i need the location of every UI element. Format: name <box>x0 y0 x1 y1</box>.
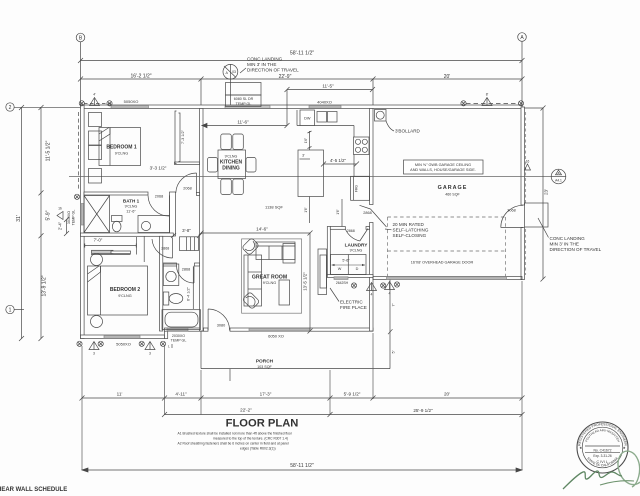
bedroom2 bed <box>88 266 148 315</box>
laundry south wall <box>327 275 373 278</box>
svg-text:L: L <box>168 345 170 349</box>
svg-text:16'X8' OVERHEAD GARAGE DOOR: 16'X8' OVERHEAD GARAGE DOOR <box>411 261 474 265</box>
dimension 1'-6" laundry offset <box>336 199 342 227</box>
bedroom1 bed <box>99 128 141 166</box>
svg-text:7'-0": 7'-0" <box>94 238 103 243</box>
bath1 top wall <box>84 192 148 195</box>
svg-text:103 SQF: 103 SQF <box>257 365 272 369</box>
svg-text:measured to the top of the tex: measured to the top of the texture. (CRC… <box>213 437 288 441</box>
garage south wall <box>373 277 522 280</box>
svg-text:5050XO: 5050XO <box>124 99 139 104</box>
shear symbols laundry south <box>351 283 385 297</box>
dashed roof line left of bedroom1 <box>78 112 80 190</box>
svg-text:A4.1: A4.1 <box>555 178 562 182</box>
bath2 tub <box>162 310 201 330</box>
garage right wall lower <box>521 228 525 280</box>
svg-text:3080: 3080 <box>217 324 225 328</box>
overhead garage door band <box>387 261 507 280</box>
svg-text:16: 16 <box>526 160 530 164</box>
svg-text:3'BOLLARD: 3'BOLLARD <box>395 129 421 134</box>
kitchen counter top run <box>297 110 370 176</box>
svg-text:Exp. 3-31-26: Exp. 3-31-26 <box>593 454 611 458</box>
svg-text:2068: 2068 <box>183 187 191 191</box>
dimension left 31' <box>16 105 24 341</box>
great room sofa top <box>256 242 295 263</box>
dimension row2 bottom: 22'-2", 25'-9 1/2" <box>162 408 525 418</box>
svg-text:9'CLNG: 9'CLNG <box>125 205 138 209</box>
notes A1 A2 <box>178 432 293 451</box>
bedroom1 bottom wall stub <box>197 193 200 196</box>
dimension 7'-0" bath1 <box>85 238 137 248</box>
porch outline <box>201 280 390 382</box>
svg-text:9'CLNG: 9'CLNG <box>118 294 131 298</box>
porch label <box>256 359 274 369</box>
svg-text:22'-2": 22'-2" <box>240 408 252 413</box>
shear symbol bath1 corner <box>74 194 79 199</box>
shear symbols garage top <box>461 93 524 106</box>
svg-text:5'-9 1/2": 5'-9 1/2" <box>344 392 361 397</box>
dimension 6'-4 1/2" bath2 <box>187 267 194 310</box>
svg-text:14'-6": 14'-6" <box>256 227 268 232</box>
bedroom1 label <box>106 145 137 156</box>
electric fireplace <box>318 249 367 310</box>
svg-text:11': 11' <box>117 392 123 397</box>
svg-text:2068: 2068 <box>155 194 163 198</box>
svg-text:5'-9": 5'-9" <box>46 210 52 220</box>
svg-text:DW: DW <box>304 117 311 121</box>
svg-text:7'-3 1/2": 7'-3 1/2" <box>181 129 185 144</box>
bath1 vanity <box>138 216 170 233</box>
svg-text:No. C41672: No. C41672 <box>593 448 611 452</box>
svg-text:BEDROOM 1: BEDROOM 1 <box>106 145 137 151</box>
svg-text:GREAT ROOM: GREAT ROOM <box>252 275 287 281</box>
sliding door 6080 SL DR + landing <box>225 83 270 109</box>
svg-text:1: 1 <box>9 308 12 314</box>
svg-text:6050 XO: 6050 XO <box>268 334 284 339</box>
svg-text:9'CLNG: 9'CLNG <box>115 152 128 156</box>
dimension row1 bottom: 11', 4'-11", 17'-3", 5'-9 1/2", 20' <box>80 392 525 401</box>
interior wall bedrooms/living x201 <box>200 109 204 332</box>
svg-text:GARAGE: GARAGE <box>438 185 468 191</box>
dimension 4'-5 1/2" island to counter <box>321 158 359 167</box>
dimension top 58'-11 1/2" <box>78 51 525 64</box>
svg-text:ELECTRIC: ELECTRIC <box>340 300 363 305</box>
great room armchair top-left <box>242 238 260 256</box>
svg-text:4: 4 <box>371 293 373 297</box>
svg-text:1'6": 1'6" <box>304 138 308 143</box>
svg-text:58'-11 1/2": 58'-11 1/2" <box>290 51 315 57</box>
svg-text:2868: 2868 <box>161 247 169 251</box>
refrigerator FRG <box>351 176 370 200</box>
svg-text:31': 31' <box>16 215 22 222</box>
svg-text:1'6": 1'6" <box>304 207 308 212</box>
svg-text:CONC LANDING: CONC LANDING <box>550 236 586 241</box>
door 2868 garage entry <box>360 205 387 227</box>
dimension 13'-5 1/2" great room <box>303 233 313 334</box>
svg-text:23': 23' <box>544 189 549 195</box>
window 5050XO bedroom2 south <box>104 336 140 347</box>
svg-text:2868: 2868 <box>182 267 190 271</box>
shear symbol left wall <box>57 207 63 220</box>
window 5050XO bedroom1 <box>111 99 149 108</box>
dimension 7' and 5' porch right <box>388 303 396 353</box>
dishwasher DW <box>300 110 315 126</box>
garage right wall upper <box>521 107 525 205</box>
great room armchair bottom-left <box>242 292 260 310</box>
svg-text:MIN ⅝" GWB GARAGE CEILING: MIN ⅝" GWB GARAGE CEILING <box>415 163 471 167</box>
svg-text:11'-6": 11'-6" <box>126 210 136 214</box>
bath1 shower <box>84 196 110 233</box>
bedroom2 closet sliders <box>91 237 144 263</box>
svg-text:8': 8' <box>486 93 489 97</box>
svg-text:MIN 3' IN THE: MIN 3' IN THE <box>550 242 579 247</box>
bath2 top wall <box>163 263 177 266</box>
window 2642SH laundry south <box>334 277 349 285</box>
svg-text:PORCH: PORCH <box>256 359 274 365</box>
svg-text:3': 3' <box>302 154 305 158</box>
dimension 14'-6" great room <box>199 227 313 236</box>
pe stamp <box>577 422 628 473</box>
svg-text:BEDROOM 2: BEDROOM 2 <box>110 287 141 293</box>
svg-text:11'-5": 11'-5" <box>322 84 334 89</box>
svg-text:4'-5 1/2": 4'-5 1/2" <box>330 158 347 163</box>
svg-text:6080 SL DR: 6080 SL DR <box>234 97 254 101</box>
bath1 label <box>123 199 140 214</box>
kitchen dining label <box>220 155 243 172</box>
svg-text:2868: 2868 <box>347 229 355 233</box>
signature green <box>563 451 640 489</box>
bedroom1 closet bottom wall <box>175 162 200 165</box>
overhead door dashed tracks <box>388 217 506 277</box>
dashed segment garage top wall <box>466 103 519 105</box>
svg-text:20 MIN RATED: 20 MIN RATED <box>393 222 425 227</box>
svg-text:17'-3": 17'-3" <box>260 392 272 397</box>
washer dryer <box>331 255 367 275</box>
window 2030XO bath2 south <box>167 328 188 342</box>
dining table <box>218 150 246 179</box>
garage label <box>438 185 468 197</box>
dimension 11'-5" kitchen right <box>285 84 376 126</box>
laundry left wall <box>327 227 330 278</box>
svg-text:460 SQF: 460 SQF <box>445 193 460 197</box>
dimension 2'-4" small left <box>58 217 70 236</box>
svg-text:2: 2 <box>9 105 12 111</box>
svg-text:5': 5' <box>391 350 396 353</box>
coffee table <box>279 280 290 305</box>
hall/bath1 wall <box>170 192 176 236</box>
bath2 vanity <box>163 264 179 286</box>
linen closet hall <box>180 237 199 251</box>
bath2 top wall stub east <box>195 263 200 266</box>
door 3080 great room porch <box>208 309 230 331</box>
svg-text:9'CLNG: 9'CLNG <box>350 249 363 253</box>
kitchen island <box>298 150 324 197</box>
door 2068 bath1 <box>148 194 170 216</box>
svg-text:13'-9 1/2": 13'-9 1/2" <box>42 275 48 296</box>
grid marker 1 <box>6 305 24 313</box>
bedroom2 side tables <box>91 254 103 328</box>
bedroom1 closet doors <box>175 111 185 164</box>
svg-text:1'6": 1'6" <box>336 209 340 214</box>
window 3030XO bath1 left wall <box>67 204 84 226</box>
shear symbol bath2 small mark <box>168 344 172 349</box>
dashed segment top-left wall <box>84 103 111 105</box>
kitchen-garage wall x371 lower <box>370 223 374 332</box>
svg-text:FRG: FRG <box>355 185 359 193</box>
svg-text:3030XO: 3030XO <box>67 211 71 224</box>
svg-text:MIN 3' IN THE: MIN 3' IN THE <box>247 62 276 67</box>
shear symbols garage front <box>385 282 400 296</box>
svg-text:13'-5 1/2": 13'-5 1/2" <box>303 272 308 291</box>
svg-text:9'CLNG: 9'CLNG <box>225 155 238 159</box>
bath2 south wall <box>165 328 204 331</box>
window 6050 XO great room south <box>249 328 310 338</box>
svg-text:D: D <box>356 267 359 271</box>
grid marker B <box>76 33 85 105</box>
20 min rated note <box>385 222 429 238</box>
door 3068 front entry garage right <box>501 205 523 227</box>
range stove <box>354 137 370 155</box>
svg-text:9'CLNG: 9'CLNG <box>263 281 276 285</box>
svg-text:TEMP GL: TEMP GL <box>72 210 76 226</box>
great room south wall segment east <box>230 328 373 331</box>
shear symbols bedroom2 south <box>77 341 166 355</box>
dashed fire wall garage right <box>525 112 527 275</box>
svg-text:5050XO: 5050XO <box>116 342 131 347</box>
svg-text:03: 03 <box>232 70 236 74</box>
svg-text:4': 4' <box>93 93 96 97</box>
dimension 23' garage right <box>525 106 549 282</box>
svg-text:1b: 1b <box>58 207 62 211</box>
great room label <box>252 275 287 286</box>
dining chairs <box>208 134 257 195</box>
svg-text:DINING: DINING <box>222 166 240 172</box>
window 4040XO kitchen <box>309 100 341 109</box>
svg-text:58'-11 1/2": 58'-11 1/2" <box>290 463 314 469</box>
svg-text:11'-6": 11'-6" <box>237 120 249 125</box>
great room south wall segment west <box>204 328 209 331</box>
svg-text:3: 3 <box>93 352 95 356</box>
great room sofa left <box>244 255 262 306</box>
svg-text:SELF-LATCHING: SELF-LATCHING <box>393 228 429 233</box>
grid marker 2 <box>6 103 81 111</box>
svg-text:2868: 2868 <box>363 211 371 215</box>
svg-text:A1 Brushed texture shall: A1 Brushed texture shall be installed no… <box>178 432 293 436</box>
svg-text:W: W <box>338 267 342 271</box>
svg-text:TEMP GL: TEMP GL <box>171 338 187 342</box>
dimension 3'-8" hall <box>171 228 202 238</box>
svg-text:3'-8": 3'-8" <box>182 228 191 233</box>
island dim above <box>304 131 312 150</box>
svg-text:LAUNDRY: LAUNDRY <box>345 242 369 247</box>
shear symbols top-left <box>79 93 112 106</box>
laundry label <box>345 242 369 252</box>
svg-text:4: 4 <box>389 292 391 296</box>
kitchen sink <box>317 112 337 123</box>
svg-text:CONC LANDING: CONC LANDING <box>247 57 283 62</box>
shear symbol 16 garage wall <box>525 160 531 171</box>
kitchen-garage wall x371 upper <box>370 109 374 205</box>
grid marker A <box>518 33 527 107</box>
section marker 03 top <box>223 64 238 105</box>
door 2868 bath2 <box>177 266 195 283</box>
svg-text:SHEAR WALL SCHEDULE: SHEAR WALL SCHEDULE <box>0 487 67 493</box>
svg-text:11'-5 1/2": 11'-5 1/2" <box>46 140 52 161</box>
svg-text:AND WALLS, HOUSE/GARAGE SID: AND WALLS, HOUSE/GARAGE SIDE. <box>410 168 476 172</box>
exterior top wall <box>81 105 523 109</box>
dimension row3 bottom: 58'-11 1/2" <box>82 463 522 472</box>
bedroom2/hall wall x161 <box>160 236 163 331</box>
bedroom1 dressers <box>89 113 102 184</box>
door 2868 bedroom2 <box>152 238 173 259</box>
svg-text:20': 20' <box>444 74 451 80</box>
svg-text:FLOOR PLAN: FLOOR PLAN <box>226 418 299 430</box>
svg-text:BATH 1: BATH 1 <box>123 199 140 204</box>
bath1 bottom wall <box>81 233 174 236</box>
exterior left wall <box>81 105 85 339</box>
svg-text:SELF-CLOSING: SELF-CLOSING <box>393 233 427 238</box>
svg-text:2642SH: 2642SH <box>336 281 349 285</box>
extension lines bottom <box>82 281 522 470</box>
svg-text:4'-11": 4'-11" <box>175 392 187 397</box>
dimension 11'-6" kitchen <box>202 120 290 129</box>
svg-text:3: 3 <box>149 352 151 356</box>
laundry top wall west <box>330 227 345 230</box>
svg-text:16'-2 1/2": 16'-2 1/2" <box>130 74 151 80</box>
garage gwb note box <box>404 160 484 174</box>
svg-text:TEMP GL: TEMP GL <box>236 102 252 106</box>
svg-text:DIRECTION OF TRAVEL: DIRECTION OF TRAVEL <box>247 68 299 73</box>
wall jog at x165 <box>165 331 168 339</box>
door 2868 laundry <box>345 229 368 242</box>
svg-text:22'-9": 22'-9" <box>279 74 292 80</box>
bollard <box>375 110 421 134</box>
svg-text:5'-6": 5'-6" <box>342 259 350 263</box>
exterior bottom wall bedroom2 <box>81 335 165 339</box>
svg-text:A2 Roof sheathing fastene: A2 Roof sheathing fasteners shall be 6 i… <box>178 442 290 446</box>
section cut line A4.1 <box>69 169 566 184</box>
bath2 toilet <box>163 292 183 305</box>
svg-text:3068: 3068 <box>507 209 515 213</box>
conc landing note top <box>240 57 299 74</box>
svg-text:4040XO: 4040XO <box>317 100 332 105</box>
svg-text:3'-3 1/2": 3'-3 1/2" <box>150 166 167 171</box>
bath1 toilet <box>112 216 123 232</box>
dimension left row2: 11'-5 1/2", 5'-9", 13'-9 1/2" <box>39 105 52 341</box>
svg-text:20': 20' <box>444 392 450 397</box>
svg-text:2'-4": 2'-4" <box>58 221 63 230</box>
svg-text:25'-9 1/2": 25'-9 1/2" <box>413 408 433 413</box>
svg-text:7': 7' <box>391 303 396 306</box>
door 2068 bedroom1 <box>176 173 197 193</box>
conc landing front entry <box>525 203 602 252</box>
dimension top row2: 16'-2 1/2", 22'-9", 20' <box>78 74 525 108</box>
svg-text:FIRE PLACE: FIRE PLACE <box>340 305 367 310</box>
bedroom2 label <box>110 287 141 298</box>
great room rug outline <box>242 239 302 313</box>
svg-text:6'-4 1/2": 6'-4 1/2" <box>187 286 191 301</box>
svg-text:DIRECTION OF TRAVEL: DIRECTION OF TRAVEL <box>550 247 602 252</box>
svg-text:edges (Table R602.3(1)): edges (Table R602.3(1)) <box>240 447 276 451</box>
laundry top wall east stub <box>366 227 370 230</box>
svg-text:1138 SQF: 1138 SQF <box>265 205 283 210</box>
island dim below <box>304 197 310 224</box>
